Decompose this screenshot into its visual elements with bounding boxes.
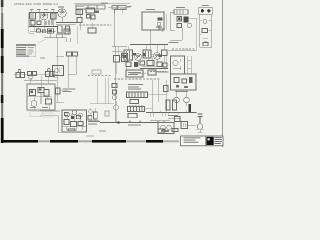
transformer winding 1 [127,92,148,98]
rb small marks above [196,127,198,129]
T2 core [127,51,130,59]
bottom cluster frame [62,110,87,132]
bc tube wire [115,101,117,123]
wire mid drop 2 [50,33,58,45]
osc coil label [37,8,41,11]
vert left of cluster [125,67,127,76]
comp c2 [91,15,95,19]
bk marks bottom [68,129,75,131]
header shelf box 2 [88,5,97,9]
tube V7 [174,97,180,103]
header shelf box 1 [76,5,88,9]
right mid rule [168,50,197,52]
extra center wires [131,45,166,64]
speaker wire [150,120,170,122]
label D [120,9,126,10]
note text 1 [63,89,76,90]
speaker inner circle 2 [167,125,171,129]
parts table header [16,44,36,46]
stack comp circle [203,20,207,24]
comp f1 core [178,18,181,21]
bk dark dot [71,116,74,119]
tuning box side vertical [166,14,168,30]
rb narrow rect 2 [173,100,177,110]
wire c drops [90,13,92,28]
left strip segment mid [1,48,3,56]
det label [44,8,48,11]
wire left mid [56,56,64,58]
G2 dark bit b [184,86,188,88]
bk x mark [70,114,73,117]
band links [120,56,154,58]
left strip segment black 2 [1,56,4,73]
pack inner rails [40,93,42,104]
bk comp 1 [64,120,69,125]
junction dots row1 [46,20,52,26]
bk right comp circle [89,110,93,114]
title block logo [206,137,213,145]
comp q4 dark [134,62,138,67]
winding 2 bumps [128,106,143,107]
bk right underline [88,119,100,121]
group1 coil b [21,73,25,78]
dark blob q6 [143,53,146,56]
bc text [128,125,141,126]
lower bus 2 [30,31,56,33]
tuning label [146,9,155,10]
right page border [222,0,224,147]
rb wire 2 [188,125,197,127]
stack lower comp [203,43,208,46]
G side verticals [188,56,192,74]
bk extra comp a [77,116,81,119]
output box G [171,56,185,74]
ps label box 1 text b [128,73,138,76]
right stack label [202,5,209,6]
page background [0,0,225,147]
cluster bus low [140,68,168,70]
line tap comp [56,88,61,94]
right drop wire [77,26,79,44]
dial lamp marks [54,68,63,78]
rb ballast foot [198,129,202,132]
left binding strip base [1,0,3,143]
pack wires [28,76,52,110]
bc tube [113,105,118,110]
small comp cluster mid [48,29,54,33]
comp f2 dark [184,17,189,23]
comp q2 [147,61,154,66]
fig note [40,57,45,60]
bottom bar gray 3 [126,140,146,142]
winding 2 hatch [131,107,143,112]
cap C2 marks [52,14,54,19]
winding 1 hatch [129,92,144,98]
lower box G2 [171,74,197,90]
tap link [60,89,68,91]
left strip segment gray 3 [1,103,3,118]
left strip segment black bottom [1,118,4,143]
bk label a [88,121,100,122]
extra wire tl [34,25,44,31]
bk tube 3 [79,113,83,117]
grid cap inner [78,10,80,14]
ps wire mid [144,94,167,108]
cluster wires q [128,45,164,67]
main cluster bus A [130,44,168,46]
mixer box [122,54,128,62]
extra center comp 2 [163,63,167,67]
left lower rule [24,80,57,82]
pack comp 1 [30,90,36,96]
parts table row 1 [17,47,27,48]
tube V6 [173,60,178,65]
chassis text row [88,75,112,77]
extra mark tl1 [37,29,41,32]
bc bus [100,121,168,123]
title block text line 1 [184,136,201,139]
stack bottom [200,47,212,49]
title block right text 2 [214,138,222,141]
bk comp 3 [78,122,83,126]
comp f1 [177,17,182,22]
wire mid drop [44,38,70,43]
parts table row 3 right [28,52,34,53]
F inner marks [177,10,183,14]
ps label box 1 [126,70,143,77]
tuning stem [149,30,151,45]
rb bus [146,112,197,114]
header shelf line [74,3,130,5]
group3 coil [46,72,50,77]
comp cluster mid dark [49,30,53,33]
tuning extra marks [160,29,165,33]
bk right wires [90,108,95,122]
rb comp 1 [181,122,188,129]
elec cap can cap1 [67,52,72,56]
stack comp box [202,29,208,33]
ps label box 1 text a [128,71,141,74]
G2 dark bit a [176,85,179,88]
parts table row 4 right [28,54,33,55]
winding mid box [130,100,139,104]
title block right text 3 [214,140,222,143]
V4 internals [136,55,140,59]
mixer core [123,55,127,58]
ps left comp 1 [112,84,117,88]
G2 text [175,91,188,92]
bk tube 2 [72,110,77,115]
bk label b [88,123,97,124]
dark blob q7 [159,55,163,58]
bottom bar black 2 [50,140,78,143]
det drops [117,47,119,75]
tuning rotor [157,22,161,26]
power pack box [27,84,55,110]
coil box L1 core [31,13,33,19]
ghost rect bl2 [43,113,53,117]
G2 comp dark [189,77,193,83]
left strip segment black 3 [1,95,4,103]
bus hang ticks [150,113,165,118]
left strip segment gray 2 [1,73,3,95]
parts table row 2 [17,49,27,50]
left lower wire row [14,74,57,76]
group3 coil b [50,72,54,77]
bus wire 2a [56,22,78,24]
pack comp 4 [46,99,52,104]
bottom bar gray 4 [163,140,179,142]
ps divider text row [114,78,160,80]
ps right comp [164,86,169,92]
wire F right [189,18,197,51]
bk comp 2 [71,122,77,127]
if transformer box T3 [143,50,151,58]
field coil text c [128,89,141,90]
ps text right [158,72,169,73]
comp q5 [126,62,131,67]
wire F down [170,28,182,40]
header small box a [112,6,117,10]
stack socket dot 2 [207,9,210,12]
left lower group1 coil [16,73,20,78]
pack comp 2 [38,88,44,93]
R5 marks [66,30,69,34]
title block logo mark [208,138,210,140]
comp q3 [157,62,162,67]
bk wires [62,115,86,131]
cap C2 [51,13,57,19]
can rail right [76,56,78,74]
stack rail right [211,14,213,47]
left strip segment dark top [1,0,4,7]
ant transformer box F [174,10,188,14]
above-title text [196,128,204,131]
wire D2 [112,47,127,57]
elec cap can cap2 [73,52,78,56]
tiny header text [101,2,108,5]
ps faint comp left [105,111,109,116]
chassis bottom [90,103,114,105]
rb bus ticks [152,111,186,115]
parts table row 3 [17,51,27,52]
above-title bits 1 [158,129,165,132]
rb comp 1 inner [183,123,185,127]
tube V3 small [187,23,191,27]
can bottom wire [68,73,77,75]
tuning dark bits [158,18,163,21]
faint diagonal lead [38,39,46,43]
V5 internals [155,54,159,58]
speaker inner circle 1 [161,125,165,129]
left riser wire [29,13,34,33]
header shelf box 3 [97,5,105,9]
ps label box 2 [148,70,156,75]
dark blob q0 [133,53,136,56]
V7 V8 wires [177,90,187,106]
tube V4 [135,54,142,61]
field coil text a [128,84,143,85]
G inner marks [173,59,181,70]
speaker top box [175,117,181,122]
field coil text b [128,86,139,87]
cap C4 [57,34,63,38]
title block divider [205,136,207,146]
bk right comps [94,112,98,119]
group2 comp b [33,72,37,76]
bottom bar black 3 [92,140,126,143]
speaker box [158,123,174,134]
title block right text 1 [214,136,222,139]
ps verticals [152,80,167,112]
antenna coil T1 label [30,8,34,11]
resistor R3 vertical [58,26,63,33]
stack marks [200,20,211,41]
rb narrow rect 1 [166,100,170,110]
header wire right [108,8,130,14]
shield box C [86,8,95,13]
bk tube 1 [65,112,70,117]
svg-text:ASTRAL RAD. CORP. MODEL 5-A: ASTRAL RAD. CORP. MODEL 5-A [14,3,58,6]
handwriting mark [86,135,94,136]
pack caption [40,110,60,113]
tube V2 internals [60,9,65,15]
bus wire top-left [29,26,59,28]
title block text line 2 [184,139,196,142]
text row c [79,24,112,26]
bc faint text left [99,130,106,133]
stack rail left [199,14,201,47]
resistor R1 [30,21,35,26]
pack bottom marks [30,107,48,109]
extra center comp 1 [140,61,145,65]
title block frame [181,136,224,146]
wire V2 cathode [61,17,63,22]
parts table row 4 [17,54,27,55]
tube V5 [154,53,161,60]
bottom bar black 1 [1,140,38,143]
wire F left [170,12,174,30]
comp c1 [87,15,91,19]
wire drop a [31,10,53,27]
parts table frame [16,44,36,57]
G2 comp 2 [182,79,187,83]
above-title bits 2 [172,129,178,132]
long wire D vertical [115,10,128,123]
text F bottom [169,42,179,43]
ps left comp 2 [113,90,117,94]
group3 trimmer [47,68,50,71]
note text 2 [63,91,72,92]
header tiny text [127,5,132,8]
pack dark inset 1 [31,91,34,94]
pack comp 3 [44,90,49,97]
speaker inner mark [161,130,169,132]
group2 trimmer [29,76,32,79]
title block right text 4 [214,142,221,145]
T3 core [146,51,149,57]
ps left tube [113,96,117,100]
title block text line 3 [184,141,199,144]
chassis vertical 1 [96,78,98,104]
rb ballast marks [198,114,203,123]
comp right b1 [77,18,82,23]
faint box center-low [92,70,101,74]
wire right b [76,7,84,30]
stack socket dot 1 [201,9,204,12]
det coil box [114,56,120,63]
coil box L1 [30,13,36,20]
transformer winding 2 [128,107,145,112]
tube V1 [40,12,48,20]
tube V2 [58,9,66,17]
pack dark inset 2 [39,89,42,91]
rb dark bar [189,104,192,112]
grid cap box [76,10,83,15]
right stack top box [199,7,213,14]
header small box b [118,6,126,10]
left strip segment gray [1,13,3,29]
tube V2 label [58,7,64,8]
dial lamp [55,69,59,73]
rb ballast tube [197,124,203,130]
bk right comp 2 [88,116,92,121]
left low wire [56,102,64,104]
volume control R5 [64,29,70,34]
bk extra comp b [65,113,68,116]
header dark mark [94,11,99,14]
cluster text row [150,71,166,73]
bus wire 2b [56,24,76,26]
right mid text row [172,48,196,50]
left strip segment black 1 [1,29,4,48]
bottom bar gray 2 [78,140,92,142]
dial lamp box [53,66,64,76]
right top label F [176,7,185,8]
resistor R2 [37,21,41,25]
parts table row 2 right [28,49,34,50]
group1 trimmer [18,69,21,72]
can rail left [67,56,69,88]
comp f3 [177,24,182,28]
group2 comp a [28,72,32,76]
tuning mark [156,26,162,30]
resistor R4 [66,26,70,31]
bottom bar black 4 [146,140,163,143]
tuning gang box [142,12,164,30]
rb rule [168,118,181,120]
top bus wire [29,12,58,14]
ghost rect bl1 [30,112,42,117]
tube V1 grid [42,12,47,18]
tube V8 [184,97,190,103]
comp q1 [162,50,168,56]
bk left wire [40,116,62,133]
comp c3 [88,28,96,33]
parts table row 5 [17,55,30,56]
transformer bottom box [128,114,137,118]
rb text [168,115,178,116]
if label [51,8,55,11]
parts table row 1 right [28,47,35,48]
if transformer box T2 [124,50,133,60]
bc junction [117,121,119,123]
chassis vertical 2 [105,78,108,104]
G2 comp 1 [174,78,179,83]
pack tube [31,101,37,107]
bottom bar gray 1 [38,140,50,142]
cluster foot wire [130,73,146,75]
